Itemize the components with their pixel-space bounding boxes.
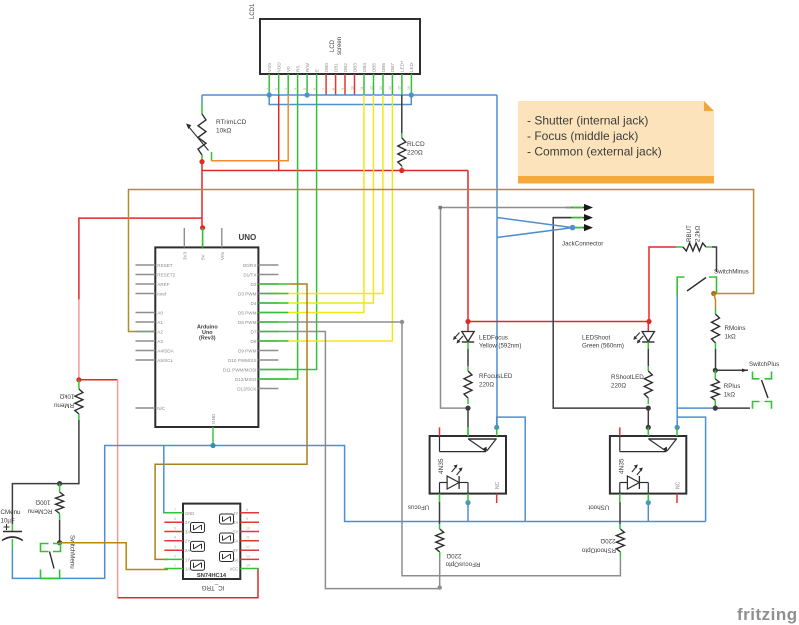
- svg-text:RLCD: RLCD: [407, 141, 425, 148]
- Arduino pin AREF: [136, 282, 170, 287]
- Arduino pin D7: [251, 329, 279, 334]
- wire blue shoot base loop: [677, 417, 705, 521]
- LCD1 pin 3 V0: [284, 66, 291, 95]
- svg-text:AREF: AREF: [157, 282, 169, 287]
- svg-text:7: 7: [174, 508, 176, 512]
- wire shoot opto led down: [619, 502, 621, 524]
- IC_TRG gate glyphs: [191, 514, 234, 570]
- svg-text:UNO: UNO: [239, 233, 257, 242]
- LCD1 pin 1 VSS: [265, 63, 272, 95]
- svg-text:RFocusLED: RFocusLED: [479, 373, 513, 380]
- svg-text:RShootLED: RShootLED: [611, 374, 644, 381]
- svg-text:4: 4: [293, 88, 297, 90]
- node RLCD bottom junction: [399, 168, 404, 173]
- wire pale red 5V branch lower: [78, 299, 80, 380]
- wire brown bus A2: [129, 190, 754, 332]
- wire pale red down to VCC row: [117, 380, 119, 598]
- svg-text:SwitchMinus: SwitchMinus: [714, 269, 749, 276]
- svg-text:RS: RS: [295, 66, 300, 72]
- svg-text:D4: D4: [251, 301, 257, 306]
- svg-text:1A: 1A: [185, 567, 190, 572]
- IC_TRG pin 10 5Y: [233, 527, 259, 535]
- svg-text:3V3: 3V3: [182, 251, 187, 260]
- svg-text:JackConnector: JackConnector: [562, 241, 603, 248]
- svg-text:220Ω: 220Ω: [611, 383, 626, 390]
- wire blue down right of LCD: [496, 95, 498, 427]
- svg-text:10µF: 10µF: [1, 518, 15, 525]
- svg-text:(Rev3): (Rev3): [199, 336, 216, 342]
- svg-text:1: 1: [174, 564, 176, 568]
- LCD1 pin 16 LED-: [407, 61, 414, 95]
- svg-text:A2: A2: [157, 329, 163, 334]
- svg-text:DB6: DB6: [381, 63, 386, 72]
- wire GND bus blue top: [202, 94, 497, 96]
- wire red to RBUT: [649, 247, 676, 322]
- node Arduino GND junction: [210, 443, 215, 448]
- Arduino pin D8: [251, 339, 279, 344]
- LCD1 pin 12 DB5: [369, 63, 376, 95]
- svg-text:5V: 5V: [201, 253, 206, 260]
- svg-text:GND: GND: [211, 413, 216, 424]
- svg-text:DB7: DB7: [390, 63, 395, 72]
- node focus base junction: [494, 425, 499, 430]
- svg-text:2: 2: [174, 554, 176, 558]
- svg-text:SwitchMenu: SwitchMenu: [69, 535, 76, 569]
- LCD1 pin 4 RS: [293, 66, 300, 95]
- svg-text:RPlus: RPlus: [724, 383, 741, 390]
- resistor RLCD 220: [398, 95, 425, 171]
- wire GND bus blue lower: [269, 95, 411, 105]
- svg-text:LEDFocus: LEDFocus: [479, 335, 508, 342]
- Arduino pin GND: [211, 413, 216, 445]
- svg-text:4Y: 4Y: [233, 511, 238, 516]
- wire VDD red down: [278, 95, 280, 171]
- wire gold menu to IC 1A: [60, 543, 168, 570]
- node VSS junction: [267, 92, 272, 97]
- IC_TRG pin 14 VCC: [229, 564, 259, 572]
- svg-text:GND: GND: [185, 511, 194, 516]
- IC_TRG pin 6 3Y: [164, 517, 190, 525]
- Arduino pin 5V: [201, 228, 206, 260]
- svg-text:VCC: VCC: [229, 567, 238, 572]
- svg-text:9: 9: [246, 517, 248, 521]
- svg-text:3A: 3A: [185, 530, 190, 535]
- svg-text:A4/SDA: A4/SDA: [157, 348, 174, 353]
- optocoupler U:Focus 4N35: [408, 427, 506, 510]
- IC_TRG pin 3 2A: [164, 545, 190, 553]
- wire black RMenu to CMenu: [12, 420, 79, 524]
- node LEDShoot junction: [646, 319, 651, 324]
- LCD1 pin 15 LED+: [398, 60, 405, 95]
- Arduino pin A1: [136, 320, 164, 325]
- wire blue GND bottom left: [12, 446, 705, 579]
- wire end: [259, 312, 289, 314]
- wire orange to RMoins: [714, 294, 716, 309]
- wire blue focus base loop: [497, 417, 526, 521]
- resistor RShootOpto 220: [581, 502, 624, 557]
- svg-text:12: 12: [369, 86, 373, 90]
- switch SwitchMenu: [41, 535, 76, 578]
- node D6 wire corner: [400, 320, 404, 324]
- wire red 5V branch: [79, 218, 202, 300]
- node RFocusLED junction: [465, 406, 470, 411]
- svg-text:4: 4: [174, 536, 176, 540]
- svg-text:RShootOpto: RShootOpto: [581, 547, 616, 554]
- Arduino pin D0/RX: [243, 263, 279, 268]
- IC_TRG pin 12 6Y: [233, 545, 259, 553]
- svg-text:10kΩ: 10kΩ: [59, 393, 74, 400]
- Arduino pin D5 PWM: [238, 310, 278, 315]
- svg-text:11: 11: [246, 536, 250, 540]
- node focus emitter junction: [465, 500, 470, 505]
- svg-text:D7: D7: [251, 329, 257, 334]
- svg-text:NC: NC: [495, 481, 501, 489]
- svg-text:DB3: DB3: [352, 63, 357, 72]
- svg-text:100Ω: 100Ω: [35, 499, 50, 506]
- Arduino pin A2: [136, 329, 164, 334]
- LCD1 pin 5 R/W: [303, 62, 310, 95]
- note box annotation: [518, 101, 714, 184]
- wire yellow DB5 to D4: [278, 95, 373, 303]
- LED LEDShoot green 560nm: [582, 322, 655, 350]
- wire end: [259, 331, 289, 333]
- connector JackConnector: [553, 204, 603, 248]
- LCD1 pin 13 DB6: [379, 63, 386, 95]
- IC_TRG pin 5 3A: [164, 527, 190, 535]
- svg-text:VIN: VIN: [220, 252, 225, 260]
- wire end: [259, 302, 289, 304]
- svg-text:DB2: DB2: [343, 63, 348, 72]
- svg-text:10: 10: [350, 86, 354, 90]
- LCD1 pin 14 DB7: [388, 63, 395, 95]
- Arduino pin 3V3: [182, 228, 187, 260]
- svg-text:Yellow (592nm): Yellow (592nm): [479, 343, 521, 350]
- svg-text:16: 16: [407, 86, 411, 90]
- svg-text:ioref: ioref: [157, 291, 167, 296]
- svg-text:A0: A0: [157, 310, 163, 315]
- IC IC_TRG SN74HC14: [183, 504, 240, 591]
- LCD1 pin 8 DB1: [331, 63, 338, 95]
- svg-text:Green (560nm): Green (560nm): [582, 343, 624, 350]
- svg-text:VDD: VDD: [276, 62, 281, 72]
- Arduino pin D13/SCK: [237, 386, 278, 391]
- Arduino pin N/C: [136, 406, 166, 411]
- svg-text:1: 1: [265, 88, 269, 90]
- svg-text:14: 14: [246, 564, 250, 568]
- svg-text:12: 12: [246, 545, 250, 549]
- node RMenu top junction: [76, 377, 81, 382]
- wire end: [259, 369, 289, 371]
- svg-text:RBUT: RBUT: [686, 225, 693, 242]
- wire blue opto shoot emitter: [647, 503, 649, 522]
- optocoupler U:Shoot 4N35: [588, 427, 686, 510]
- svg-text:1Y: 1Y: [185, 557, 190, 562]
- svg-text:fritzing: fritzing: [737, 605, 798, 624]
- Arduino pin D6 PWM: [238, 320, 278, 325]
- svg-text:14: 14: [388, 86, 392, 90]
- svg-text:10kΩ: 10kΩ: [216, 128, 231, 135]
- switch SwitchMinus: [677, 269, 749, 296]
- node LEDFocus junction: [465, 319, 470, 324]
- resistor RFocusLED 220: [464, 349, 513, 404]
- svg-text:4N35: 4N35: [438, 458, 445, 474]
- wire end: [259, 378, 289, 380]
- node LED- junction: [409, 92, 414, 97]
- wire blue jack focus diag2: [497, 228, 573, 238]
- wire end: [259, 321, 289, 323]
- svg-text:D5 PWM: D5 PWM: [238, 310, 257, 315]
- svg-text:RESET: RESET: [157, 263, 173, 268]
- Arduino pin D1/TX: [243, 272, 278, 277]
- svg-text:D0/RX: D0/RX: [243, 263, 257, 268]
- wire yellow DB4 to D5: [278, 95, 364, 313]
- wire black RMoins to RPlus: [715, 349, 717, 370]
- svg-text:4N35: 4N35: [618, 458, 625, 474]
- svg-text:2A: 2A: [185, 548, 190, 553]
- svg-text:220Ω: 220Ω: [446, 552, 461, 559]
- svg-text:- Common (external jack): - Common (external jack): [527, 145, 662, 159]
- wire blue to RTrimLCD: [201, 95, 203, 103]
- wire focus opto led down: [439, 502, 441, 524]
- IC_TRG pin 11 5A: [233, 536, 259, 544]
- wire end: [259, 340, 289, 342]
- wire blue to IC GND: [164, 446, 168, 513]
- svg-text:RTrimLCD: RTrimLCD: [216, 119, 247, 126]
- wire shoot junction to opto: [647, 408, 649, 427]
- Arduino pin RESET: [136, 263, 173, 268]
- node jack focus junction: [570, 225, 576, 231]
- svg-text:RFocusOpto: RFocusOpto: [445, 561, 480, 568]
- svg-text:D13/SCK: D13/SCK: [237, 386, 257, 391]
- Arduino Uno U1: [155, 233, 258, 427]
- wire black RCMenu to switch: [59, 520, 61, 543]
- Arduino pin D4: [251, 301, 279, 306]
- svg-text:UShoot: UShoot: [588, 504, 609, 511]
- svg-text:RCMenu: RCMenu: [27, 508, 52, 515]
- svg-text:NC: NC: [676, 481, 682, 489]
- wire brown D2 to IC 1Y: [155, 284, 307, 559]
- svg-text:DB5: DB5: [371, 63, 376, 72]
- svg-text:LED+: LED+: [400, 60, 405, 72]
- Arduino pin D9 PWM: [238, 348, 278, 353]
- wire yellow DB6 to D3: [278, 95, 383, 294]
- IC_TRG pin 7 GND: [164, 508, 194, 516]
- wire green focus collector stub: [467, 427, 469, 436]
- svg-text:CMenu: CMenu: [1, 509, 22, 516]
- svg-text:5: 5: [174, 527, 176, 531]
- svg-text:220Ω: 220Ω: [600, 537, 615, 544]
- IC_TRG pin 2 1Y: [164, 554, 190, 562]
- wire green shoot collector stub: [647, 427, 649, 436]
- node R/W junction: [305, 92, 310, 97]
- wire red bus LED row: [468, 321, 649, 323]
- wire grey D6 to RShootOpto: [288, 321, 402, 323]
- node RPlus top junction: [713, 368, 718, 373]
- svg-text:15: 15: [398, 86, 402, 90]
- svg-text:D10 PWM/SS: D10 PWM/SS: [228, 358, 256, 363]
- wire blue opto focus emitter: [467, 503, 469, 522]
- svg-text:7: 7: [322, 88, 326, 90]
- LCD module LCD1: [250, 3, 420, 74]
- wire grey D6 down: [402, 322, 620, 576]
- svg-text:- Shutter (internal jack): - Shutter (internal jack): [527, 114, 648, 128]
- node shoot emitter junction: [646, 500, 651, 505]
- svg-text:VSS: VSS: [267, 63, 272, 72]
- resistor RFocusOpto 220: [436, 502, 481, 568]
- svg-text:DB1: DB1: [333, 63, 338, 72]
- svg-text:LCD1: LCD1: [250, 3, 256, 19]
- svg-text:D8: D8: [251, 339, 257, 344]
- capacitor CMenu 10uF: [1, 509, 23, 548]
- wire focus junction to opto: [467, 408, 469, 427]
- svg-text:D9 PWM: D9 PWM: [238, 348, 257, 353]
- svg-text:9: 9: [341, 88, 345, 90]
- wire LED+ to RLCD: [401, 95, 403, 133]
- wire end: [259, 293, 289, 295]
- wire black jack shutter: [553, 218, 648, 409]
- svg-text:1kΩ: 1kΩ: [724, 392, 736, 399]
- resistor RCMenu 100: [27, 484, 63, 520]
- svg-text:LCD: LCD: [330, 39, 336, 52]
- node RPlus bottom junction: [713, 406, 718, 411]
- svg-text:D6 PWM: D6 PWM: [238, 320, 257, 325]
- svg-text:3: 3: [284, 88, 288, 90]
- node RTrimLCD bottom junction: [199, 159, 204, 164]
- svg-text:RMenu: RMenu: [53, 402, 74, 409]
- Arduino pin RESET2: [136, 272, 176, 277]
- wire red bus under LCD: [202, 170, 468, 172]
- resistor RShootLED 220: [611, 349, 652, 404]
- svg-text:RESET2: RESET2: [157, 272, 175, 277]
- LCD1 pin 10 DB3: [350, 63, 357, 95]
- wire 5V red bus: [201, 162, 203, 228]
- LCD1 pin 9 DB2: [341, 63, 348, 95]
- wire blue SwitchMinus to bottom: [676, 295, 678, 417]
- svg-text:5: 5: [303, 88, 307, 90]
- Arduino pin D11 PWM/MOSI: [223, 367, 279, 372]
- svg-text:2.2kΩ: 2.2kΩ: [695, 225, 702, 242]
- svg-text:2Y: 2Y: [185, 539, 190, 544]
- wire black to SwitchPlus: [715, 369, 748, 371]
- node shoot collector junction: [646, 425, 651, 430]
- svg-text:D1/TX: D1/TX: [243, 272, 256, 277]
- node D7 wire corner: [438, 585, 442, 589]
- svg-text:D3 PWM: D3 PWM: [238, 291, 257, 296]
- wire black RBUT to SwitchMinus: [712, 247, 717, 272]
- IC_TRG pin 13 6A: [233, 554, 259, 562]
- svg-text:LEDShoot: LEDShoot: [582, 335, 610, 342]
- Arduino pin A3: [136, 339, 164, 344]
- svg-text:IC_TRG: IC_TRG: [201, 584, 224, 591]
- Arduino pin D12/MISO: [235, 377, 278, 382]
- LCD1 pin 6 E: [312, 69, 319, 95]
- svg-text:SN74HC14: SN74HC14: [197, 573, 227, 579]
- wire green E to D11: [278, 95, 316, 370]
- svg-text:A1: A1: [157, 320, 163, 325]
- node SwitchMenu junction: [57, 540, 62, 545]
- wire blue RPlus row: [677, 407, 715, 409]
- wire green 5V stub: [202, 228, 204, 247]
- wire red to RMenu corner: [79, 379, 118, 381]
- svg-text:8: 8: [246, 508, 248, 512]
- svg-text:LED-: LED-: [409, 61, 414, 72]
- Arduino pin D2: [251, 282, 279, 287]
- resistor RPlus 1k: [711, 370, 740, 408]
- svg-text:A3: A3: [157, 339, 163, 344]
- svg-text:3: 3: [174, 545, 176, 549]
- node shoot base junction: [675, 425, 680, 430]
- wire green RS to D12: [278, 95, 297, 379]
- svg-text:11: 11: [360, 86, 364, 90]
- svg-text:6: 6: [174, 517, 176, 521]
- wire grey D7 to RFocusOpto: [288, 332, 439, 589]
- LED LEDFocus yellow 592nm: [453, 322, 521, 350]
- svg-text:2: 2: [274, 88, 278, 90]
- Arduino pin D10 PWM/SS: [228, 358, 278, 363]
- LCD1 pin 11 DB4: [360, 63, 367, 95]
- wire grey jack common: [441, 208, 572, 409]
- svg-text:3Y: 3Y: [185, 520, 190, 525]
- IC_TRG pin 1 1A: [164, 564, 190, 572]
- IC_TRG pin 4 2Y: [164, 536, 190, 544]
- svg-text:D12/MISO: D12/MISO: [235, 377, 257, 382]
- wire end: [259, 283, 289, 285]
- Arduino pin ioref: [136, 291, 167, 296]
- node RShootLED junction: [646, 406, 651, 411]
- node RCMenu junction: [57, 481, 62, 486]
- wire yellow DB7 to D8: [278, 95, 392, 341]
- svg-text:8: 8: [331, 88, 335, 90]
- svg-text:E: E: [314, 69, 319, 72]
- LCD1 pin 2 VDD: [274, 62, 281, 95]
- svg-text:5Y: 5Y: [233, 530, 238, 535]
- wire red bus to LEDs: [467, 171, 469, 322]
- svg-text:6: 6: [312, 88, 316, 90]
- resistor RMenu 10k: [53, 380, 82, 420]
- svg-text:- Focus (middle jack): - Focus (middle jack): [527, 129, 638, 143]
- IC_TRG pin 8 4Y: [233, 508, 259, 516]
- svg-text:13: 13: [379, 86, 383, 90]
- svg-text:DB4: DB4: [362, 63, 367, 72]
- switch SwitchPlus: [715, 361, 779, 409]
- wire blue jack focus diag1: [497, 218, 573, 228]
- Arduino pin D3 PWM: [238, 291, 278, 296]
- wire green A2 stub: [137, 331, 156, 333]
- svg-text:13: 13: [246, 554, 250, 558]
- svg-text:SwitchPlus: SwitchPlus: [749, 361, 779, 368]
- svg-text:R/W: R/W: [305, 62, 310, 72]
- svg-text:D11 PWM/MOSI: D11 PWM/MOSI: [223, 367, 257, 372]
- Arduino pin A4/SDA: [136, 348, 175, 353]
- svg-text:6Y: 6Y: [233, 548, 238, 553]
- resistor RMoins 1k: [712, 308, 746, 349]
- svg-text:D2: D2: [251, 282, 257, 287]
- svg-text:A5/SCL: A5/SCL: [157, 358, 173, 363]
- node jack common wire end: [439, 206, 442, 209]
- Arduino pin VIN: [220, 228, 225, 260]
- wire red to IC VCC: [118, 569, 258, 598]
- svg-text:10: 10: [246, 527, 250, 531]
- svg-text:N/C: N/C: [157, 406, 166, 411]
- svg-text:220Ω: 220Ω: [479, 382, 494, 389]
- svg-text:RMoins: RMoins: [725, 325, 746, 332]
- Arduino pin A5/SCL: [136, 358, 174, 363]
- node 5V pin junction: [200, 225, 205, 230]
- svg-text:V0: V0: [286, 66, 291, 72]
- svg-text:1kΩ: 1kΩ: [725, 334, 737, 341]
- resistor RBUT 2.2k: [676, 225, 712, 251]
- svg-text:screen: screen: [337, 37, 343, 55]
